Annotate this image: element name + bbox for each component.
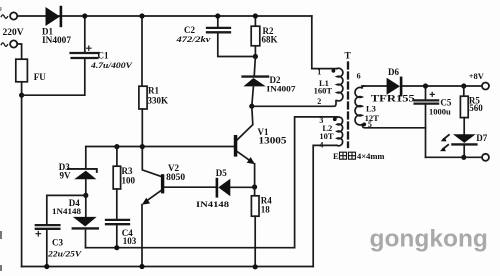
capacitor C2 <box>207 16 255 57</box>
svg-text:IN4007: IN4007 <box>42 35 72 45</box>
wire top-rail drop to L1 pin1 <box>312 16 337 69</box>
svg-text:22u/25V: 22u/25V <box>47 249 83 259</box>
svg-text:18: 18 <box>261 205 271 215</box>
node V1 collector junction <box>249 104 254 109</box>
svg-text:4.7u/400V: 4.7u/400V <box>90 60 134 70</box>
resistor R4 <box>251 187 259 267</box>
svg-text:4: 4 <box>319 141 323 150</box>
svg-text:13005: 13005 <box>259 137 287 147</box>
LED D7 <box>440 134 476 157</box>
transistor V1 13005 <box>234 106 255 187</box>
svg-text:C3: C3 <box>52 238 63 248</box>
winding L2 10T <box>295 117 343 267</box>
svg-text:100: 100 <box>122 176 136 186</box>
svg-text:D5: D5 <box>216 168 227 178</box>
node R1 top <box>139 13 144 18</box>
node C2 top <box>215 13 220 18</box>
svg-text:160T: 160T <box>314 85 333 95</box>
svg-text:D7: D7 <box>476 133 487 143</box>
svg-text:IN4148: IN4148 <box>196 199 229 209</box>
node R3 top <box>114 144 119 149</box>
svg-text:68K: 68K <box>262 35 278 45</box>
node R5 top <box>461 83 466 88</box>
node V2 emitter bottom <box>139 264 144 269</box>
svg-text:4×4mm: 4×4mm <box>357 151 385 161</box>
terminal AC neutral <box>1 40 17 47</box>
label E core 4x4mm <box>333 151 385 161</box>
svg-text:C1: C1 <box>98 51 109 61</box>
transformer core (dashed) <box>347 63 349 148</box>
capacitor C4 <box>106 220 129 248</box>
svg-text:L3: L3 <box>366 103 376 113</box>
node R2 top <box>253 13 258 18</box>
diode D2 <box>243 57 268 107</box>
svg-text:FU: FU <box>34 72 46 82</box>
wire top rail <box>17 15 312 17</box>
terminal +8V <box>482 83 489 90</box>
svg-text:6: 6 <box>357 72 361 81</box>
node C4 bottom <box>114 245 119 250</box>
svg-text:330K: 330K <box>148 96 169 106</box>
svg-text:gongkong: gongkong <box>370 226 488 253</box>
diode D5 <box>216 178 255 198</box>
svg-text:1N4148: 1N4148 <box>52 206 81 216</box>
node snubber junction <box>253 54 258 59</box>
node R4 bottom <box>253 264 258 269</box>
resistor R1 <box>139 16 147 147</box>
zener D3 9V <box>68 147 97 196</box>
svg-text:IN4007: IN4007 <box>267 84 297 94</box>
svg-text:8050: 8050 <box>166 172 186 182</box>
node D3/D4/C3 junction <box>83 193 88 198</box>
transistor V2 8050 <box>142 147 216 267</box>
node C3 bottom <box>44 264 49 269</box>
capacitor C5 <box>415 86 439 157</box>
svg-text:472/2kv: 472/2kv <box>175 34 211 44</box>
node R1/V2 collector junction <box>140 144 145 149</box>
wire feedback line D4/C4 to L2 pin3 <box>86 247 295 249</box>
edge artifacts <box>0 231 2 239</box>
svg-text:10T: 10T <box>319 131 334 141</box>
svg-text:9V: 9V <box>60 171 72 181</box>
svg-text:D6: D6 <box>388 67 399 77</box>
node C5 top <box>423 83 428 88</box>
terminal output minus <box>482 154 489 161</box>
phase dot L1 <box>332 69 336 73</box>
phase dot L3 <box>362 123 366 127</box>
svg-text:R1: R1 <box>148 86 159 96</box>
wire bottom rail <box>22 266 314 268</box>
svg-text:103: 103 <box>123 236 137 246</box>
svg-text:E: E <box>333 151 339 161</box>
svg-text:TFR155: TFR155 <box>371 95 415 105</box>
svg-text:V1: V1 <box>258 127 269 137</box>
svg-text:+8V: +8V <box>469 71 485 81</box>
diode D4 <box>73 195 98 247</box>
diode D1 <box>46 6 63 27</box>
resistor R5 <box>460 86 468 134</box>
svg-text:560: 560 <box>469 103 483 113</box>
svg-text:220V: 220V <box>3 28 24 38</box>
resistor R2 <box>251 16 260 57</box>
wire V1 base rail <box>86 146 234 148</box>
node FU/C1 junction <box>19 93 24 98</box>
wire L1 pin2 to collector <box>252 101 336 107</box>
fuse FU <box>16 44 28 95</box>
phase dot L2 <box>333 117 337 121</box>
svg-text:R3: R3 <box>122 166 133 176</box>
svg-text:12T: 12T <box>365 113 380 123</box>
svg-text:T: T <box>345 52 352 62</box>
wire output minus <box>426 156 482 158</box>
capacitor C1 <box>22 16 99 95</box>
terminal AC live <box>1 12 17 19</box>
resistor R3 <box>113 147 120 220</box>
node D7 bottom <box>461 155 466 160</box>
svg-text:1000u: 1000u <box>429 107 451 117</box>
node V1 emitter / R4 top <box>252 184 257 189</box>
winding L3 12T <box>355 86 425 128</box>
wire left vertical to bottom rail <box>21 95 23 266</box>
winding L1 160T <box>337 68 343 101</box>
node C1 top <box>82 13 87 18</box>
svg-text:2: 2 <box>317 97 321 106</box>
svg-text:1: 1 <box>317 68 321 77</box>
capacitor C3 <box>36 195 86 266</box>
diode D6 <box>362 77 482 97</box>
